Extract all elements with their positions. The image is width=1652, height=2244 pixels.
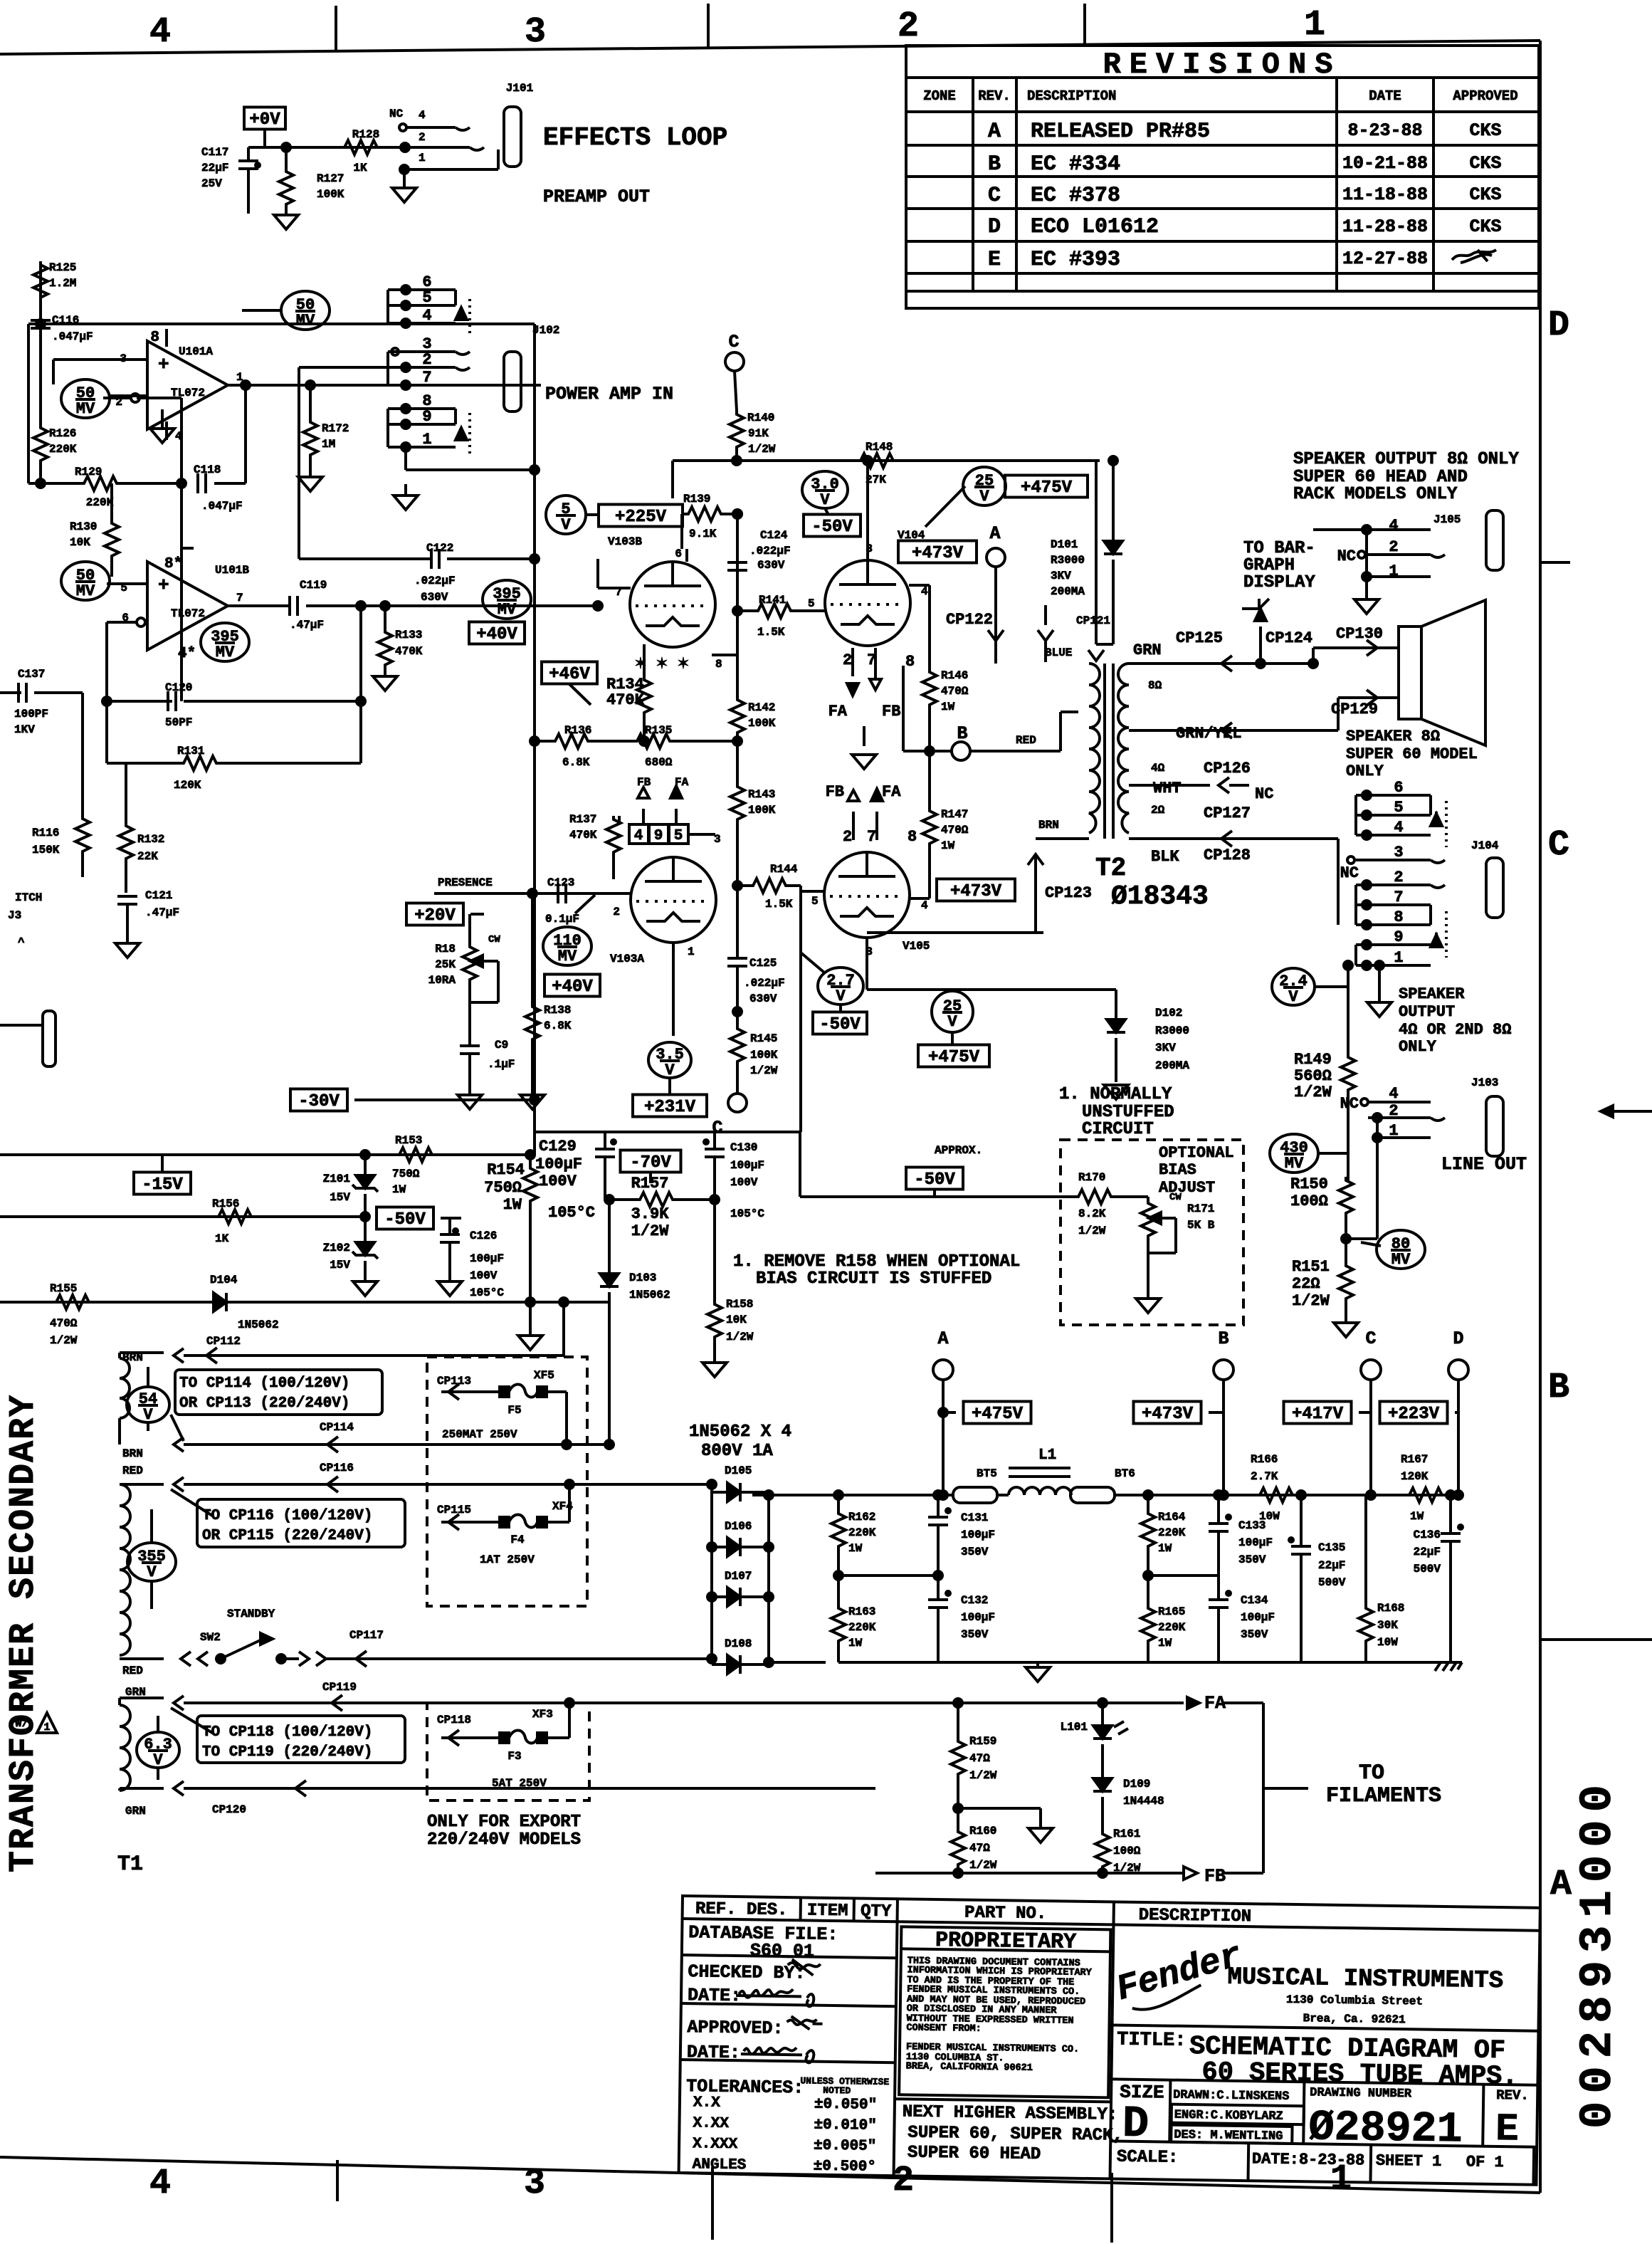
svg-text:R140: R140 bbox=[747, 411, 774, 424]
svg-text:3: 3 bbox=[1394, 844, 1403, 861]
svg-text:-50V: -50V bbox=[384, 1210, 426, 1230]
svg-text:100μF: 100μF bbox=[961, 1611, 995, 1624]
svg-text:22Ω: 22Ω bbox=[1292, 1275, 1320, 1293]
svg-text:5K B: 5K B bbox=[1187, 1219, 1215, 1232]
svg-text:RELEASED PR#85: RELEASED PR#85 bbox=[1031, 120, 1210, 144]
svg-text:FB: FB bbox=[826, 783, 844, 801]
svg-text:D102: D102 bbox=[1155, 1007, 1182, 1019]
svg-text:.1μF: .1μF bbox=[488, 1058, 515, 1071]
svg-text:C134: C134 bbox=[1241, 1594, 1268, 1607]
svg-text:8: 8 bbox=[715, 658, 722, 671]
svg-text:R135: R135 bbox=[645, 724, 672, 737]
svg-text:100μF: 100μF bbox=[1241, 1611, 1275, 1624]
svg-text:REV.: REV. bbox=[978, 88, 1011, 104]
svg-text:R172: R172 bbox=[322, 422, 349, 435]
svg-text:UNSTUFFED: UNSTUFFED bbox=[1082, 1103, 1174, 1122]
svg-text:±0.005": ±0.005" bbox=[814, 2138, 877, 2155]
svg-text:ZONE: ZONE bbox=[923, 88, 956, 104]
svg-text:4: 4 bbox=[921, 899, 928, 912]
svg-text:REF. DES.: REF. DES. bbox=[695, 1899, 788, 1920]
svg-text:100PF: 100PF bbox=[14, 708, 48, 720]
svg-text:1/2W: 1/2W bbox=[631, 1222, 670, 1240]
svg-text:DATE:: DATE: bbox=[687, 2042, 740, 2063]
svg-text:6: 6 bbox=[1394, 779, 1403, 797]
svg-text:2Ω: 2Ω bbox=[1151, 804, 1165, 817]
svg-text:CP116: CP116 bbox=[320, 1462, 354, 1474]
svg-text:4*: 4* bbox=[178, 646, 196, 662]
svg-text:105°C: 105°C bbox=[548, 1204, 595, 1222]
svg-text:ENGR:C.KOBYLARZ: ENGR:C.KOBYLARZ bbox=[1174, 2109, 1283, 2124]
svg-text:BLK: BLK bbox=[1151, 848, 1179, 866]
svg-text:+0V: +0V bbox=[249, 110, 280, 130]
svg-text:15V: 15V bbox=[330, 1191, 350, 1204]
svg-text:PART NO.: PART NO. bbox=[964, 1904, 1047, 1924]
svg-text:J104: J104 bbox=[1471, 839, 1499, 852]
svg-text:L1: L1 bbox=[1038, 1447, 1056, 1464]
svg-text:1: 1 bbox=[688, 945, 695, 958]
svg-text:-50V: -50V bbox=[819, 1015, 861, 1034]
svg-text:OUTPUT: OUTPUT bbox=[1399, 1003, 1455, 1021]
svg-text:R146: R146 bbox=[941, 669, 968, 682]
svg-text:BRN: BRN bbox=[122, 1447, 143, 1460]
svg-text:C9: C9 bbox=[495, 1039, 508, 1052]
svg-text:3: 3 bbox=[524, 2164, 545, 2204]
svg-text:V: V bbox=[561, 516, 571, 534]
svg-text:12-27-88: 12-27-88 bbox=[1342, 248, 1428, 269]
svg-text:OF 1: OF 1 bbox=[1466, 2153, 1504, 2171]
svg-text:DESCRIPTION: DESCRIPTION bbox=[1138, 1906, 1251, 1926]
svg-text:T1: T1 bbox=[117, 1852, 143, 1877]
svg-text:CKS: CKS bbox=[1469, 216, 1501, 237]
svg-text:.47μF: .47μF bbox=[290, 619, 324, 631]
svg-text:^: ^ bbox=[18, 936, 25, 949]
svg-text:CP118: CP118 bbox=[437, 1714, 471, 1726]
svg-text:ONLY: ONLY bbox=[1399, 1038, 1437, 1056]
svg-text:FB: FB bbox=[1204, 1866, 1226, 1887]
svg-text:GRN: GRN bbox=[125, 1805, 146, 1818]
svg-text:2: 2 bbox=[898, 6, 919, 47]
svg-text:XF5: XF5 bbox=[534, 1369, 554, 1382]
svg-text:1: 1 bbox=[43, 1721, 50, 1734]
svg-text:R158: R158 bbox=[726, 1298, 753, 1311]
svg-text:1130 Columbia Street: 1130 Columbia Street bbox=[1286, 1993, 1423, 2008]
svg-text:EC #334: EC #334 bbox=[1031, 152, 1120, 177]
svg-text:-50V: -50V bbox=[811, 518, 853, 537]
svg-text:APPROX.: APPROX. bbox=[935, 1144, 982, 1157]
svg-text:ADJUST: ADJUST bbox=[1159, 1179, 1215, 1197]
svg-text:F3: F3 bbox=[507, 1750, 521, 1763]
svg-text:CIRCUIT: CIRCUIT bbox=[1082, 1120, 1154, 1139]
svg-text:C122: C122 bbox=[426, 542, 453, 555]
svg-text:E: E bbox=[1495, 2108, 1519, 2151]
svg-text:R150: R150 bbox=[1290, 1175, 1328, 1193]
svg-text:-50V: -50V bbox=[914, 1170, 955, 1190]
svg-text:CP130: CP130 bbox=[1336, 625, 1383, 643]
svg-text:2: 2 bbox=[893, 2161, 914, 2201]
svg-text:C119: C119 bbox=[300, 579, 327, 592]
svg-text:SPEAKER: SPEAKER bbox=[1399, 985, 1465, 1003]
svg-text:±0.010": ±0.010" bbox=[814, 2117, 877, 2134]
svg-text:100μF: 100μF bbox=[730, 1159, 764, 1172]
svg-text:ITEM: ITEM bbox=[807, 1901, 848, 1921]
svg-text:MV: MV bbox=[296, 312, 315, 330]
svg-text:RACK MODELS ONLY: RACK MODELS ONLY bbox=[1293, 485, 1458, 504]
svg-text:1KV: 1KV bbox=[14, 723, 35, 736]
svg-text:+473V: +473V bbox=[912, 544, 964, 563]
svg-text:R167: R167 bbox=[1401, 1453, 1428, 1466]
svg-text:ONLY FOR EXPORT: ONLY FOR EXPORT bbox=[427, 1813, 581, 1832]
svg-text:GRN/YEL: GRN/YEL bbox=[1176, 725, 1241, 743]
svg-text:Ø18343: Ø18343 bbox=[1111, 881, 1209, 912]
svg-text:R147: R147 bbox=[941, 808, 968, 821]
svg-text:47Ω: 47Ω bbox=[969, 1842, 990, 1855]
svg-text:R151: R151 bbox=[1292, 1258, 1330, 1276]
svg-text:CP117: CP117 bbox=[349, 1629, 384, 1642]
svg-text:RED: RED bbox=[122, 1664, 143, 1677]
svg-text:0028931000: 0028931000 bbox=[1573, 1777, 1624, 2129]
svg-text:220K: 220K bbox=[848, 1526, 876, 1539]
svg-text:V: V bbox=[947, 1013, 957, 1031]
svg-text:F5: F5 bbox=[507, 1404, 521, 1417]
svg-text:R129: R129 bbox=[75, 466, 102, 478]
svg-text:R145: R145 bbox=[750, 1032, 777, 1045]
svg-text:6.8K: 6.8K bbox=[562, 756, 590, 769]
svg-text:PRESENCE: PRESENCE bbox=[438, 876, 493, 889]
svg-text:100K: 100K bbox=[748, 717, 776, 730]
svg-text:3KV: 3KV bbox=[1051, 570, 1071, 582]
svg-text:350V: 350V bbox=[961, 1628, 989, 1641]
svg-text:R125: R125 bbox=[49, 261, 76, 274]
svg-text:+: + bbox=[158, 575, 169, 596]
svg-text:V: V bbox=[979, 488, 989, 505]
svg-text:SUPER 60 MODEL: SUPER 60 MODEL bbox=[1346, 745, 1478, 763]
svg-text:1W: 1W bbox=[941, 701, 955, 713]
svg-text:Z101: Z101 bbox=[323, 1173, 350, 1185]
svg-text:R126: R126 bbox=[49, 427, 76, 440]
svg-text:A: A bbox=[937, 1328, 948, 1349]
svg-text:TRANSFORMER SECONDARY: TRANSFORMER SECONDARY bbox=[4, 1394, 44, 1872]
svg-text:A: A bbox=[1550, 1865, 1572, 1905]
svg-text:C133: C133 bbox=[1238, 1519, 1266, 1532]
svg-text:10K: 10K bbox=[70, 536, 90, 549]
svg-text:V: V bbox=[147, 1563, 157, 1581]
svg-text:R143: R143 bbox=[748, 788, 775, 801]
svg-text:C125: C125 bbox=[749, 957, 777, 970]
svg-text:100Ω: 100Ω bbox=[1290, 1192, 1328, 1210]
svg-text:ECO L01612: ECO L01612 bbox=[1031, 215, 1159, 239]
svg-text:BREA, CALIFORNIA 90621: BREA, CALIFORNIA 90621 bbox=[906, 2061, 1033, 2073]
svg-text:Ø28921: Ø28921 bbox=[1308, 2104, 1463, 2154]
svg-text:J102: J102 bbox=[532, 324, 559, 337]
svg-text:750Ω: 750Ω bbox=[392, 1168, 420, 1180]
svg-text:C131: C131 bbox=[961, 1511, 988, 1524]
svg-text:120K: 120K bbox=[1401, 1470, 1429, 1483]
svg-text:CP122: CP122 bbox=[946, 611, 993, 629]
svg-text:3KV: 3KV bbox=[1155, 1042, 1176, 1054]
svg-text:V: V bbox=[153, 1751, 163, 1769]
svg-text:SUPER 60 HEAD: SUPER 60 HEAD bbox=[907, 2143, 1041, 2164]
svg-text:22μF: 22μF bbox=[1414, 1546, 1441, 1558]
svg-text:MV: MV bbox=[216, 644, 235, 661]
svg-text:22K: 22K bbox=[137, 850, 158, 863]
svg-text:100Ω: 100Ω bbox=[1113, 1845, 1141, 1857]
svg-text:FB: FB bbox=[882, 703, 900, 720]
svg-text:RED: RED bbox=[122, 1464, 143, 1477]
svg-text:D105: D105 bbox=[725, 1464, 752, 1477]
svg-text:T2: T2 bbox=[1095, 854, 1126, 883]
svg-text:FA: FA bbox=[882, 783, 901, 801]
svg-text:C130: C130 bbox=[730, 1141, 757, 1154]
svg-text:1: 1 bbox=[1389, 1122, 1398, 1140]
svg-text:3.9K: 3.9K bbox=[631, 1205, 670, 1223]
svg-text:1/2W: 1/2W bbox=[1294, 1084, 1332, 1101]
svg-text:1/2W: 1/2W bbox=[50, 1334, 78, 1347]
svg-text:R116: R116 bbox=[32, 827, 59, 839]
svg-text:1N5062 X 4: 1N5062 X 4 bbox=[689, 1422, 791, 1442]
svg-text:10RA: 10RA bbox=[428, 974, 456, 987]
svg-text:CP125: CP125 bbox=[1176, 629, 1223, 647]
svg-text:500V: 500V bbox=[1318, 1576, 1346, 1589]
svg-text:R138: R138 bbox=[544, 1004, 571, 1017]
svg-text:R163: R163 bbox=[848, 1605, 875, 1618]
svg-text:SHEET 1: SHEET 1 bbox=[1376, 2152, 1442, 2171]
svg-text:EFFECTS LOOP: EFFECTS LOOP bbox=[543, 123, 727, 152]
svg-text:220K: 220K bbox=[49, 443, 77, 456]
svg-text:4: 4 bbox=[149, 12, 171, 53]
svg-text:FA: FA bbox=[828, 703, 848, 720]
svg-text:+225V: +225V bbox=[615, 508, 667, 527]
svg-text:C123: C123 bbox=[547, 876, 574, 889]
svg-text:1W: 1W bbox=[848, 1637, 863, 1650]
svg-text:7: 7 bbox=[867, 828, 876, 846]
svg-text:D: D bbox=[988, 215, 1001, 239]
svg-text:1. REMOVE R158 WHEN OPTIONAL: 1. REMOVE R158 WHEN OPTIONAL bbox=[733, 1252, 1020, 1272]
svg-text:4: 4 bbox=[1394, 819, 1403, 837]
svg-text:150K: 150K bbox=[32, 844, 60, 856]
svg-text:3: 3 bbox=[525, 12, 546, 53]
svg-text:ONLY: ONLY bbox=[1346, 762, 1384, 780]
svg-text:R142: R142 bbox=[748, 701, 775, 714]
svg-text:C135: C135 bbox=[1318, 1541, 1345, 1554]
svg-text:APPROVED:: APPROVED: bbox=[687, 2017, 783, 2039]
svg-text:CP128: CP128 bbox=[1204, 846, 1251, 864]
svg-text:QTY: QTY bbox=[861, 1902, 892, 1921]
svg-text:R132: R132 bbox=[137, 833, 164, 846]
svg-text:2: 2 bbox=[843, 651, 852, 669]
svg-text:2: 2 bbox=[613, 906, 620, 918]
svg-text:SCALE:: SCALE: bbox=[1117, 2148, 1179, 2168]
svg-text:4: 4 bbox=[1389, 517, 1398, 535]
svg-text:D101: D101 bbox=[1051, 538, 1078, 551]
svg-text:-70V: -70V bbox=[630, 1153, 671, 1173]
svg-text:D107: D107 bbox=[725, 1570, 752, 1583]
svg-text:-15V: -15V bbox=[142, 1175, 183, 1195]
svg-text:V: V bbox=[836, 987, 846, 1005]
svg-text:R160: R160 bbox=[969, 1825, 996, 1837]
svg-text:R166: R166 bbox=[1251, 1453, 1278, 1466]
svg-text:OR CP115 (220/240V): OR CP115 (220/240V) bbox=[202, 1528, 372, 1544]
svg-text:10-21-88: 10-21-88 bbox=[1342, 153, 1428, 174]
svg-text:NC: NC bbox=[1337, 547, 1356, 565]
svg-text:FILAMENTS: FILAMENTS bbox=[1326, 1784, 1441, 1808]
svg-text:TO: TO bbox=[1359, 1761, 1384, 1786]
svg-text:J105: J105 bbox=[1433, 513, 1461, 526]
svg-text:5: 5 bbox=[422, 289, 431, 307]
svg-text:CW: CW bbox=[1169, 1192, 1182, 1203]
svg-text:TL072: TL072 bbox=[171, 607, 205, 620]
svg-text:100K: 100K bbox=[317, 188, 344, 201]
svg-text:V: V bbox=[143, 1406, 153, 1424]
svg-text:2: 2 bbox=[843, 828, 852, 846]
svg-text:+: + bbox=[158, 354, 169, 375]
svg-text:V: V bbox=[820, 491, 830, 509]
svg-text:V: V bbox=[1288, 988, 1298, 1006]
svg-text:R153: R153 bbox=[395, 1134, 422, 1147]
svg-text:BIAS: BIAS bbox=[1159, 1161, 1196, 1179]
svg-text:DATE: DATE bbox=[1369, 88, 1401, 104]
svg-text:.047μF: .047μF bbox=[201, 500, 243, 513]
svg-text:MUSICAL INSTRUMENTS: MUSICAL INSTRUMENTS bbox=[1227, 1964, 1503, 1995]
svg-text:MV: MV bbox=[1391, 1251, 1411, 1269]
svg-text:100K: 100K bbox=[750, 1049, 778, 1061]
svg-text:8*: 8* bbox=[164, 556, 182, 572]
svg-text:D: D bbox=[1122, 2099, 1149, 2150]
svg-text:+417V: +417V bbox=[1292, 1405, 1344, 1424]
svg-text:DRAWN:C.LINSKENS: DRAWN:C.LINSKENS bbox=[1173, 2089, 1289, 2104]
svg-text:10K: 10K bbox=[726, 1314, 747, 1326]
svg-text:1/2W: 1/2W bbox=[748, 443, 776, 456]
svg-text:XF3: XF3 bbox=[532, 1708, 553, 1721]
svg-text:BLUE: BLUE bbox=[1045, 646, 1072, 659]
svg-text:1K: 1K bbox=[215, 1232, 229, 1245]
svg-text:C117: C117 bbox=[201, 146, 228, 159]
svg-text:470Ω: 470Ω bbox=[50, 1317, 78, 1330]
svg-text:0.1μF: 0.1μF bbox=[545, 913, 579, 926]
svg-text:B: B bbox=[1218, 1328, 1229, 1349]
svg-text:470K: 470K bbox=[395, 645, 423, 658]
svg-text:J103: J103 bbox=[1471, 1076, 1498, 1089]
svg-text:CP126: CP126 bbox=[1204, 760, 1251, 777]
svg-text:C: C bbox=[988, 184, 1001, 208]
svg-text:Brea, Ca. 92621: Brea, Ca. 92621 bbox=[1303, 2012, 1406, 2026]
svg-text:R149: R149 bbox=[1294, 1051, 1332, 1069]
svg-text:R159: R159 bbox=[969, 1735, 996, 1748]
svg-text:8-23-88: 8-23-88 bbox=[1347, 120, 1422, 141]
svg-text:100μF: 100μF bbox=[470, 1252, 504, 1265]
svg-text:NC: NC bbox=[1340, 864, 1359, 882]
svg-text:CP120: CP120 bbox=[212, 1803, 246, 1816]
svg-text:680Ω: 680Ω bbox=[645, 756, 673, 769]
svg-text:R130: R130 bbox=[70, 520, 97, 533]
svg-text:1K: 1K bbox=[353, 162, 367, 174]
svg-text:630V: 630V bbox=[421, 591, 448, 604]
svg-text:SUPER 60 HEAD AND: SUPER 60 HEAD AND bbox=[1293, 468, 1468, 487]
svg-text:F4: F4 bbox=[510, 1533, 525, 1546]
svg-text:91K: 91K bbox=[748, 427, 769, 440]
svg-text:S60_01: S60_01 bbox=[750, 1940, 814, 1961]
svg-text:C137: C137 bbox=[18, 668, 45, 681]
svg-text:630V: 630V bbox=[749, 992, 777, 1005]
svg-text:R164: R164 bbox=[1158, 1511, 1186, 1524]
svg-text:X.X: X.X bbox=[693, 2094, 721, 2112]
svg-text:CP129: CP129 bbox=[1331, 701, 1378, 718]
svg-text:NC: NC bbox=[389, 108, 404, 120]
svg-text:470K: 470K bbox=[569, 829, 597, 842]
svg-text:350V: 350V bbox=[1241, 1628, 1268, 1641]
svg-text:R18: R18 bbox=[435, 943, 456, 955]
svg-text:1N5062: 1N5062 bbox=[629, 1289, 670, 1301]
svg-text:R162: R162 bbox=[848, 1511, 875, 1524]
svg-text:E: E bbox=[988, 248, 1001, 272]
svg-text:D: D bbox=[1548, 305, 1569, 346]
svg-text:750Ω: 750Ω bbox=[484, 1179, 522, 1197]
svg-text:R139: R139 bbox=[683, 493, 710, 505]
svg-text:C121: C121 bbox=[145, 889, 172, 902]
svg-text:1N5062: 1N5062 bbox=[238, 1318, 279, 1331]
svg-text:4: 4 bbox=[149, 2164, 171, 2204]
svg-text:RED: RED bbox=[1016, 734, 1036, 747]
svg-text:9.1K: 9.1K bbox=[689, 528, 717, 540]
svg-text:200MA: 200MA bbox=[1155, 1059, 1189, 1072]
svg-text:B: B bbox=[988, 152, 1001, 177]
svg-text:SPEAKER 8Ω: SPEAKER 8Ω bbox=[1346, 728, 1440, 745]
svg-text:GRN: GRN bbox=[1133, 641, 1162, 659]
svg-text:R171: R171 bbox=[1187, 1202, 1214, 1215]
svg-text:8: 8 bbox=[1394, 908, 1403, 926]
svg-text:SUPER 60, SUPER RACK,: SUPER 60, SUPER RACK, bbox=[907, 2123, 1123, 2145]
svg-text:R168: R168 bbox=[1377, 1602, 1404, 1615]
svg-text:4: 4 bbox=[1389, 1085, 1398, 1103]
svg-text:CP124: CP124 bbox=[1266, 629, 1312, 647]
svg-text:A: A bbox=[988, 120, 1001, 144]
svg-text:TO CP114 (100/120V): TO CP114 (100/120V) bbox=[179, 1375, 349, 1392]
svg-text:OR CP113 (220/240V): OR CP113 (220/240V) bbox=[179, 1395, 349, 1412]
svg-text:1: 1 bbox=[1394, 949, 1403, 967]
svg-text:.047μF: .047μF bbox=[52, 330, 93, 343]
svg-text:1N4448: 1N4448 bbox=[1123, 1795, 1164, 1808]
svg-text:OPTIONAL: OPTIONAL bbox=[1159, 1144, 1234, 1162]
svg-text:R165: R165 bbox=[1158, 1605, 1185, 1618]
svg-text:22μF: 22μF bbox=[1318, 1559, 1345, 1572]
svg-text:CKS: CKS bbox=[1469, 184, 1501, 205]
svg-text:120K: 120K bbox=[174, 779, 201, 792]
svg-text:8Ω: 8Ω bbox=[1148, 679, 1162, 692]
svg-text:R133: R133 bbox=[395, 629, 422, 641]
svg-text:TO CP118 (100/120V): TO CP118 (100/120V) bbox=[202, 1724, 372, 1741]
svg-text:TO BAR-: TO BAR- bbox=[1243, 539, 1315, 558]
svg-text:2: 2 bbox=[419, 131, 426, 144]
svg-text:100μF: 100μF bbox=[1238, 1536, 1273, 1549]
svg-text:TO CP119 (220/240V): TO CP119 (220/240V) bbox=[202, 1744, 372, 1761]
svg-text:4: 4 bbox=[422, 307, 431, 325]
svg-text:+46V: +46V bbox=[549, 665, 590, 684]
svg-text:100μF: 100μF bbox=[961, 1529, 995, 1541]
svg-text:8: 8 bbox=[905, 653, 915, 671]
svg-text:4: 4 bbox=[419, 109, 426, 122]
svg-text:CW: CW bbox=[488, 934, 500, 945]
svg-text:D: D bbox=[1453, 1328, 1463, 1349]
svg-text:470Ω: 470Ω bbox=[941, 824, 969, 837]
svg-text:J3: J3 bbox=[8, 909, 21, 922]
svg-text:MV: MV bbox=[1285, 1155, 1304, 1173]
svg-text:9: 9 bbox=[422, 408, 431, 426]
svg-text:630V: 630V bbox=[757, 559, 785, 572]
svg-text:560Ω: 560Ω bbox=[1294, 1067, 1332, 1085]
svg-text:1W: 1W bbox=[941, 839, 955, 852]
svg-text:47Ω: 47Ω bbox=[969, 1752, 990, 1765]
svg-text:±0.500°: ±0.500° bbox=[814, 2159, 877, 2176]
svg-text:100V: 100V bbox=[730, 1176, 758, 1189]
